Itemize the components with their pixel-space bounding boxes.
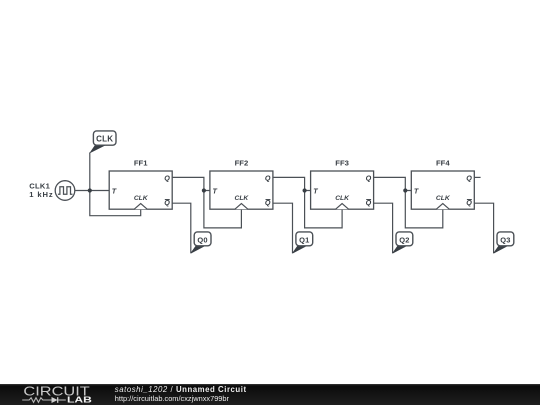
wire: FF2 Q to FF3 T input	[273, 177, 311, 190]
svg-text:FF2: FF2	[235, 158, 249, 167]
net flag Q3	[494, 232, 514, 253]
wire: FF3 Q to FF4 T input	[374, 177, 412, 190]
square wave voltage source CLK1	[55, 181, 75, 201]
flip-flop FF4 body	[411, 171, 474, 209]
wire: source to FF1 T input	[75, 190, 109, 192]
svg-text:Q: Q	[265, 174, 271, 183]
wire: clock branch to FF1 CLK wedge	[90, 191, 141, 216]
svg-text:CLK: CLK	[134, 195, 149, 202]
svg-text:FF3: FF3	[335, 158, 349, 167]
net flag Q1	[293, 232, 313, 253]
svg-text:Q: Q	[164, 174, 170, 183]
wire: FF2 Qbar to flag Q1	[273, 203, 293, 253]
footer banner	[0, 384, 540, 405]
svg-text:T: T	[213, 186, 218, 195]
net flag Q0	[191, 232, 211, 253]
flip-flop FF2 body	[210, 171, 273, 209]
svg-text:FF1: FF1	[134, 158, 148, 167]
wire: junction up to CLK net flag	[89, 152, 91, 190]
wire junction node 3	[303, 188, 307, 192]
net flag CLK	[90, 131, 116, 153]
svg-text:CLK: CLK	[335, 195, 350, 202]
svg-text:Q: Q	[366, 174, 372, 183]
svg-text:T: T	[313, 186, 318, 195]
svg-text:FF4: FF4	[436, 158, 450, 167]
wire junction node 2	[202, 188, 206, 192]
FF2 pin Qbar label	[265, 198, 271, 207]
wire: FF1 Qbar to flag Q0	[172, 203, 191, 253]
svg-text:Q0: Q0	[197, 235, 207, 244]
wire: FF3 Qbar to flag Q2	[374, 203, 393, 253]
FF3 clock edge wedge	[336, 204, 349, 210]
flip-flop FF3 body	[311, 171, 374, 209]
svg-text:Q1: Q1	[299, 235, 309, 244]
FF4 pin Qbar label	[466, 198, 472, 207]
svg-text:CLK: CLK	[96, 134, 113, 143]
svg-text:Q2: Q2	[399, 235, 409, 244]
wire: FF4 Q output stub	[474, 176, 480, 178]
footer url line	[115, 394, 229, 403]
FF3 pin Qbar label	[366, 198, 372, 207]
wire: FF4 Qbar to flag Q3	[474, 203, 493, 253]
svg-text:Q: Q	[466, 174, 472, 183]
flip-flop FF1 body	[109, 171, 172, 209]
wire junction node 1	[88, 188, 92, 192]
wire: clock branch to FF3 CLK wedge	[305, 191, 343, 228]
svg-text:CLK: CLK	[235, 195, 250, 202]
svg-text:LAB: LAB	[67, 396, 92, 405]
footer credit line	[115, 385, 247, 394]
net flag Q2	[393, 232, 413, 253]
svg-text:Q3: Q3	[500, 235, 510, 244]
svg-text:T: T	[112, 186, 117, 195]
wire junction node 4	[403, 188, 407, 192]
svg-text:1 kHz: 1 kHz	[29, 190, 53, 199]
FF4 clock edge wedge	[436, 204, 449, 210]
wire: FF1 Q to FF2 T input	[172, 177, 210, 190]
CircuitLab logo	[0, 384, 100, 405]
wire: clock branch to FF4 CLK wedge	[405, 191, 443, 228]
FF1 pin Qbar label	[164, 198, 170, 207]
wire: clock branch to FF2 CLK wedge	[204, 191, 242, 228]
FF1 clock edge wedge	[134, 204, 147, 210]
FF2 clock edge wedge	[235, 204, 248, 210]
svg-text:T: T	[414, 186, 419, 195]
svg-text:CLK: CLK	[436, 195, 451, 202]
